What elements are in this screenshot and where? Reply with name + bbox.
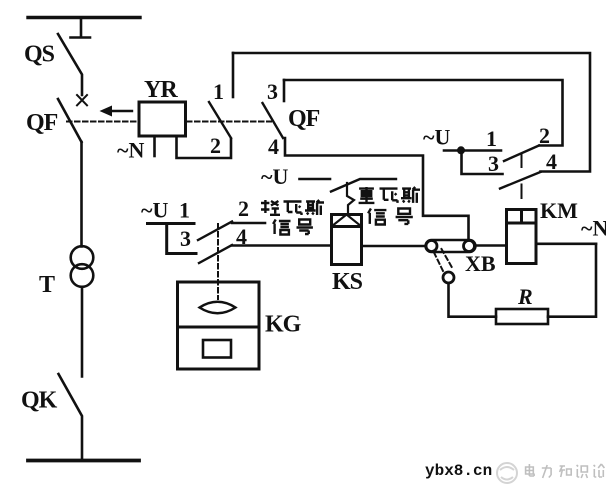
QF aux contact terminal pin 3: [283, 80, 286, 101]
wire YR to ~N stub: [153, 136, 156, 156]
wire KM to right rail: [536, 243, 596, 246]
KG lens symbol: [200, 302, 236, 314]
busbar top: [28, 16, 140, 19]
trip coil YR: [139, 102, 186, 136]
svg-text:QF: QF: [26, 110, 58, 136]
svg-text:3: 3: [180, 226, 191, 251]
watermark logo circle: [497, 463, 517, 483]
wire pin 2 to light-gas signal: [232, 222, 265, 225]
right switch blade 3-4: [500, 172, 541, 189]
watermark text dianli zhishi luntan: [526, 464, 605, 478]
link XB bar: [426, 240, 476, 252]
KS flap triangle: [332, 215, 362, 227]
left switch blade 3-4: [199, 245, 232, 263]
svg-text:XB: XB: [465, 251, 496, 276]
transformer T winding 2: [71, 264, 94, 287]
XB lower terminal circle: [443, 272, 454, 283]
QF aux contact 1-2 blade: [209, 102, 231, 138]
wire QF aux pin 4 to XB right terminal: [285, 138, 469, 240]
signal device KG box: [178, 282, 260, 369]
svg-text:KM: KM: [540, 198, 578, 223]
wire XB lower to R loop: [449, 283, 497, 317]
svg-text:3: 3: [488, 151, 499, 176]
label light gas signal (qing wa si): [261, 200, 324, 235]
svg-text:3: 3: [267, 79, 278, 104]
right switch wire to pin 3: [462, 151, 503, 175]
svg-text:2: 2: [238, 196, 249, 221]
right switch fixed wire pin 1: [444, 149, 501, 152]
svg-text:~U: ~U: [261, 164, 288, 189]
wire R to right rail up to KM wire: [548, 244, 596, 317]
mechanical linkage dashed to KG: [217, 224, 219, 299]
QF aux contact 3-4 blade: [263, 103, 284, 138]
wire QF to transformer: [80, 142, 83, 247]
KG inner rectangle: [203, 340, 231, 358]
svg-text:~N: ~N: [581, 216, 606, 241]
wire pin3 top run to switch pin 2: [284, 80, 563, 146]
svg-text:~U: ~U: [423, 125, 450, 150]
XB right terminal circle: [464, 241, 475, 252]
svg-text:2: 2: [210, 133, 221, 158]
wire transformer to QK: [81, 287, 84, 377]
mechanical linkage dashed YR to QF aux blades: [187, 121, 271, 123]
label heavy gas signal (zhong wa si): [359, 187, 420, 225]
right switch blade 1-2: [504, 146, 539, 162]
left switch wire to pin 3: [167, 224, 196, 254]
transformer T winding 1: [71, 246, 94, 269]
svg-text:ybx8.cn: ybx8.cn: [425, 462, 492, 480]
left switch fixed wire pin 1: [148, 222, 195, 225]
svg-text:~N: ~N: [117, 138, 144, 163]
gas relay KS box: [332, 215, 362, 265]
svg-text:QS: QS: [24, 42, 55, 68]
svg-text:2: 2: [539, 123, 550, 148]
heavy gas contact fixed wire: [300, 178, 331, 181]
left switch blade 1-2: [198, 222, 232, 241]
wire YR to QF aux pin 2: [177, 136, 232, 158]
svg-text:QK: QK: [21, 388, 58, 414]
linkage tick marks right switch: [521, 154, 523, 198]
wire pin1 top run to right rail down to switch pin 4: [233, 53, 590, 172]
svg-text:1: 1: [486, 126, 497, 151]
wire KS right to XB left terminal: [362, 245, 427, 248]
XB left terminal circle: [426, 241, 437, 252]
svg-text:T: T: [39, 272, 55, 298]
busbar bottom: [28, 459, 139, 463]
wire pin 4 to KS left terminal: [232, 244, 331, 247]
switch QK blade: [59, 374, 83, 460]
breaker QF blade: [58, 99, 82, 142]
junction dot: [457, 146, 465, 154]
disconnector QS blade: [58, 34, 82, 95]
svg-text:QF: QF: [288, 106, 320, 132]
svg-text:YR: YR: [144, 77, 178, 103]
svg-text:1: 1: [179, 198, 190, 223]
breaker symbol x mark: [77, 95, 87, 105]
svg-text:1: 1: [213, 79, 224, 104]
resistor R body: [496, 309, 548, 324]
wire bus to QS fixed contact: [71, 18, 91, 38]
svg-text:KS: KS: [332, 269, 363, 295]
svg-text:4: 4: [268, 134, 279, 159]
KS flexible lead: [347, 183, 354, 213]
svg-text:4: 4: [546, 149, 557, 174]
svg-text:~U: ~U: [141, 198, 168, 223]
XB open position dashed link: [434, 249, 452, 272]
relay KM box: [507, 210, 537, 264]
wire XB to KM: [475, 244, 507, 247]
svg-text:KG: KG: [265, 312, 302, 338]
svg-text:R: R: [517, 284, 533, 309]
trip direction arrow: [100, 106, 133, 117]
mechanical linkage dashed QF to YR: [67, 121, 138, 123]
QF aux contact terminal pin 1: [232, 53, 235, 97]
heavy gas contact blade: [331, 179, 396, 192]
